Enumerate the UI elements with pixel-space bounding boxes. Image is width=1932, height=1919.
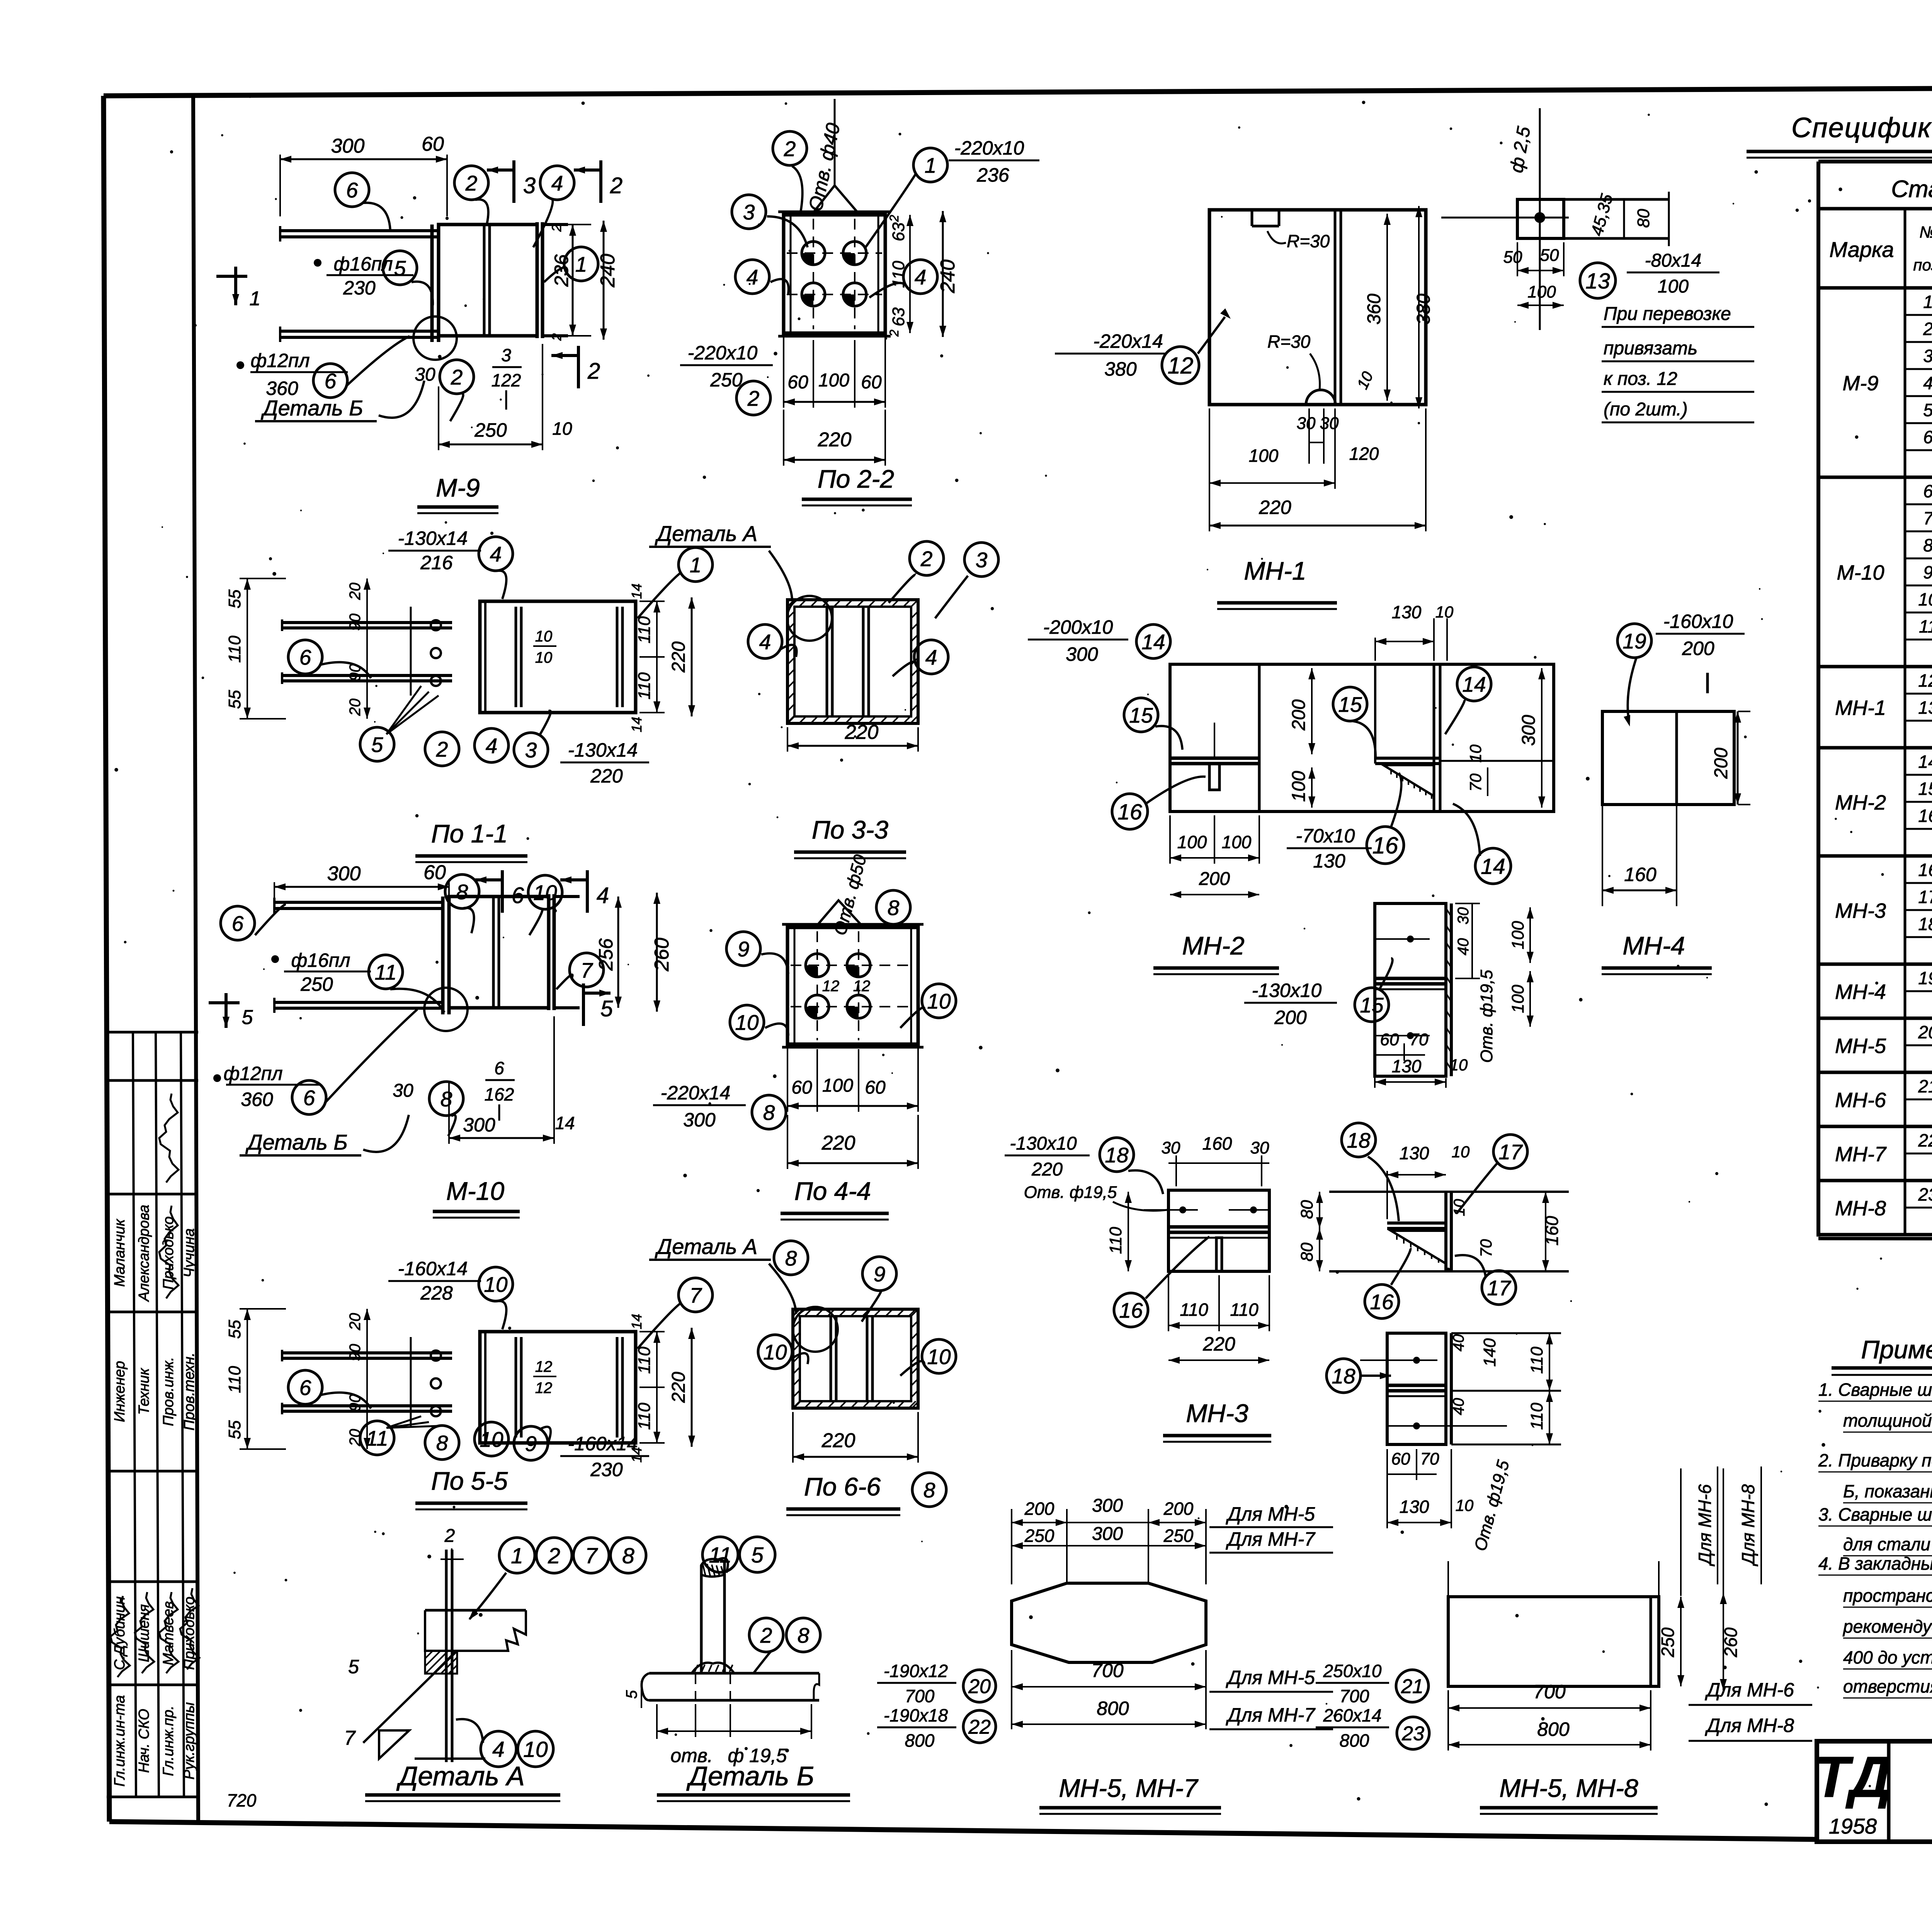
svg-text:привязать: привязать (1604, 338, 1697, 359)
svg-text:70: 70 (1466, 773, 1485, 791)
svg-text:Рук.группы: Рук.группы (181, 1702, 197, 1779)
svg-text:Чучина: Чучина (181, 1228, 197, 1278)
svg-text:720: 720 (227, 1790, 257, 1810)
svg-text:18: 18 (1105, 1143, 1129, 1167)
svg-text:8: 8 (1923, 535, 1932, 555)
svg-text:1. Сварные швы, неоговоренн: 1. Сварные швы, неоговоренные особо, при… (1818, 1380, 1932, 1400)
svg-text:МН-2: МН-2 (1835, 791, 1886, 814)
svg-text:15: 15 (1918, 779, 1932, 799)
svg-text:5: 5 (371, 733, 383, 757)
svg-text:700: 700 (1533, 1681, 1566, 1703)
svg-text:8: 8 (436, 1431, 448, 1455)
svg-text:Деталь Б: Деталь Б (260, 396, 363, 420)
svg-text:200: 200 (1711, 748, 1731, 779)
svg-text:20: 20 (1918, 1022, 1932, 1042)
svg-text:М-10: М-10 (446, 1177, 505, 1205)
svg-text:10: 10 (927, 989, 951, 1013)
svg-text:55: 55 (225, 1320, 244, 1339)
svg-text:5: 5 (348, 1656, 359, 1677)
svg-text:12: 12 (535, 1358, 553, 1375)
svg-text:4: 4 (551, 171, 563, 195)
svg-text:100: 100 (822, 1075, 853, 1096)
svg-text:228: 228 (420, 1282, 453, 1304)
svg-text:2: 2 (444, 1526, 455, 1546)
svg-text:800: 800 (905, 1730, 935, 1751)
svg-text:МН-3: МН-3 (1835, 899, 1886, 922)
svg-text:10: 10 (1450, 1056, 1468, 1074)
svg-text:ф12пл: ф12пл (223, 1063, 282, 1084)
svg-text:100: 100 (1289, 771, 1309, 802)
svg-text:10: 10 (1918, 589, 1932, 609)
svg-text:5: 5 (1923, 400, 1932, 420)
svg-text:-190х12: -190х12 (884, 1661, 948, 1681)
svg-text:18: 18 (1347, 1128, 1371, 1152)
svg-text:60: 60 (865, 1077, 886, 1098)
svg-text:МН-1: МН-1 (1835, 696, 1886, 720)
svg-text:6: 6 (1923, 481, 1932, 501)
svg-text:55: 55 (225, 589, 244, 608)
svg-text:250: 250 (710, 369, 743, 391)
svg-text:6: 6 (346, 178, 358, 202)
svg-text:220: 220 (1202, 1333, 1235, 1355)
svg-text:16: 16 (1370, 1290, 1394, 1314)
svg-text:-220х14: -220х14 (1093, 330, 1163, 352)
svg-text:63: 63 (889, 222, 908, 241)
svg-text:300: 300 (327, 863, 361, 885)
svg-text:80: 80 (1634, 209, 1653, 228)
svg-text:По 3-3: По 3-3 (812, 815, 889, 844)
svg-text:14: 14 (1481, 854, 1505, 879)
svg-text:30: 30 (1297, 414, 1316, 433)
svg-text:160: 160 (1624, 864, 1656, 885)
svg-text:к поз. 12: к поз. 12 (1604, 369, 1677, 389)
svg-text:60: 60 (423, 861, 446, 884)
svg-text:70: 70 (1410, 1030, 1429, 1049)
svg-text:220: 220 (818, 429, 852, 451)
svg-text:толщиной 6 мм.: толщиной 6 мм. (1843, 1410, 1932, 1431)
svg-text:300: 300 (1066, 643, 1098, 665)
svg-text:3: 3 (525, 738, 537, 762)
svg-text:230: 230 (343, 277, 376, 299)
svg-text:230: 230 (590, 1459, 623, 1480)
svg-text:2: 2 (760, 1623, 772, 1647)
svg-text:11: 11 (1919, 616, 1932, 636)
svg-text:1: 1 (511, 1544, 523, 1569)
svg-text:Нач. СКО: Нач. СКО (136, 1709, 152, 1773)
svg-text:Для МН-8: Для МН-8 (1705, 1715, 1794, 1736)
svg-text:250: 250 (474, 419, 507, 441)
svg-text:8: 8 (622, 1544, 634, 1569)
svg-text:14: 14 (1462, 672, 1486, 696)
svg-text:130: 130 (1313, 850, 1345, 872)
svg-text:10: 10 (927, 1345, 951, 1369)
svg-text:50: 50 (1540, 246, 1559, 265)
svg-text:17: 17 (1918, 887, 1932, 907)
svg-text:ф16пл: ф16пл (333, 253, 393, 275)
svg-text:8: 8 (440, 1087, 452, 1111)
svg-text:Для МН-8: Для МН-8 (1738, 1484, 1758, 1567)
svg-text:-160х14: -160х14 (568, 1433, 638, 1455)
svg-text:60: 60 (1380, 1030, 1399, 1049)
svg-text:14: 14 (1918, 752, 1932, 772)
svg-text:19: 19 (1622, 629, 1646, 653)
svg-text:110: 110 (1230, 1300, 1259, 1320)
svg-text:20: 20 (968, 1676, 991, 1698)
svg-text:12: 12 (535, 1380, 553, 1397)
svg-text:60: 60 (1391, 1449, 1410, 1468)
svg-text:-190х18: -190х18 (884, 1705, 948, 1725)
svg-text:14: 14 (629, 584, 645, 599)
svg-text:17: 17 (1498, 1140, 1523, 1164)
svg-text:110: 110 (225, 635, 244, 663)
svg-text:6: 6 (303, 1086, 315, 1110)
svg-text:3. Сварные швы выполнять: 3. Сварные швы выполнять электродами тип… (1818, 1504, 1932, 1524)
svg-text:ф16пл: ф16пл (291, 949, 350, 971)
svg-text:700: 700 (1091, 1660, 1124, 1681)
svg-text:300: 300 (331, 135, 365, 157)
svg-text:60: 60 (791, 1077, 812, 1098)
svg-text:-220х10: -220х10 (688, 342, 758, 364)
svg-text:8: 8 (798, 1623, 810, 1647)
svg-text:Отв. ф19,5: Отв. ф19,5 (1477, 970, 1496, 1063)
svg-text:2: 2 (887, 330, 901, 337)
svg-text:200: 200 (1289, 699, 1309, 731)
svg-text:Пров.техн.: Пров.техн. (181, 1352, 197, 1431)
svg-text:14: 14 (629, 717, 645, 732)
svg-text:90: 90 (347, 1344, 364, 1361)
svg-text:5: 5 (623, 1690, 640, 1699)
svg-text:110: 110 (635, 672, 654, 699)
svg-text:-70х10: -70х10 (1296, 825, 1355, 847)
svg-text:-160х10: -160х10 (1663, 611, 1733, 632)
svg-text:2: 2 (610, 173, 622, 198)
svg-text:30: 30 (1320, 414, 1339, 433)
svg-text:7: 7 (581, 958, 594, 982)
svg-text:200: 200 (1682, 638, 1714, 659)
svg-text:12: 12 (1918, 670, 1932, 691)
svg-text:20: 20 (347, 583, 364, 601)
svg-text:260х14: 260х14 (1323, 1705, 1382, 1725)
svg-text:При перевозке: При перевозке (1604, 304, 1731, 324)
svg-text:40: 40 (1450, 1334, 1467, 1352)
svg-text:Гл.инж.ин-та: Гл.инж.ин-та (112, 1695, 128, 1787)
svg-text:13: 13 (1585, 269, 1610, 294)
svg-text:8: 8 (888, 896, 900, 920)
svg-text:162: 162 (485, 1084, 514, 1104)
svg-text:236: 236 (976, 164, 1009, 186)
svg-text:5: 5 (600, 996, 613, 1021)
svg-text:800: 800 (1537, 1718, 1570, 1740)
svg-text:216: 216 (420, 552, 453, 573)
svg-text:220: 220 (1259, 497, 1291, 518)
svg-text:14: 14 (555, 1113, 575, 1133)
svg-text:55: 55 (225, 1420, 244, 1439)
svg-text:R=30: R=30 (1287, 231, 1330, 251)
svg-text:300: 300 (1092, 1524, 1123, 1544)
svg-text:16: 16 (1372, 833, 1398, 859)
svg-text:Б, показанной на листе: Б, показанной на листе 26. (1843, 1481, 1932, 1501)
svg-text:8: 8 (763, 1101, 775, 1125)
svg-text:30: 30 (1250, 1138, 1269, 1157)
svg-text:250х10: 250х10 (1323, 1661, 1382, 1681)
svg-text:122: 122 (492, 370, 521, 390)
svg-text:1: 1 (1923, 292, 1932, 312)
svg-text:-220х10: -220х10 (954, 137, 1024, 159)
svg-text:12: 12 (853, 978, 871, 995)
svg-text:R=30: R=30 (1267, 332, 1311, 352)
svg-text:15: 15 (1360, 993, 1384, 1017)
svg-text:110: 110 (635, 616, 654, 643)
svg-text:7: 7 (690, 1283, 702, 1307)
svg-text:7: 7 (344, 1727, 356, 1749)
svg-text:250: 250 (1024, 1526, 1054, 1546)
svg-text:130: 130 (1400, 1143, 1429, 1163)
svg-text:130: 130 (1400, 1497, 1429, 1517)
svg-text:10: 10 (533, 881, 557, 905)
svg-text:19: 19 (1918, 968, 1932, 988)
svg-text:300: 300 (1092, 1495, 1123, 1516)
svg-text:По 6-6: По 6-6 (804, 1472, 881, 1501)
svg-text:8: 8 (923, 1478, 935, 1502)
svg-text:2: 2 (887, 215, 901, 222)
svg-text:360: 360 (241, 1089, 273, 1110)
svg-text:7: 7 (1923, 508, 1932, 528)
svg-text:-130х10: -130х10 (1010, 1133, 1077, 1154)
svg-text:110: 110 (889, 260, 908, 288)
svg-text:110: 110 (635, 1346, 654, 1374)
svg-text:120: 120 (1349, 444, 1379, 464)
svg-text:220: 220 (668, 1372, 689, 1403)
svg-text:Инженер: Инженер (112, 1361, 128, 1422)
svg-text:50: 50 (1503, 248, 1522, 267)
svg-text:5: 5 (751, 1543, 764, 1568)
svg-text:6: 6 (299, 1376, 311, 1400)
svg-text:1958: 1958 (1829, 1814, 1877, 1838)
svg-text:110: 110 (635, 1402, 654, 1430)
svg-text:800: 800 (1340, 1730, 1369, 1751)
svg-text:90: 90 (347, 614, 364, 631)
svg-text:15: 15 (1338, 692, 1362, 716)
svg-text:МН-4: МН-4 (1622, 931, 1685, 960)
svg-text:4: 4 (486, 734, 498, 758)
svg-text:Отв. ф19,5: Отв. ф19,5 (1024, 1183, 1117, 1202)
svg-text:2: 2 (587, 359, 600, 384)
svg-text:рекомендуется тщательно з: рекомендуется тщательно заполнить бетоно… (1842, 1616, 1932, 1637)
svg-text:100: 100 (1509, 985, 1527, 1013)
svg-text:130: 130 (1392, 1056, 1422, 1076)
svg-text:4: 4 (490, 542, 502, 566)
svg-text:30: 30 (1455, 907, 1472, 925)
svg-text:По 4-4: По 4-4 (794, 1177, 871, 1205)
svg-text:2: 2 (465, 171, 478, 195)
svg-text:4: 4 (597, 883, 609, 908)
svg-text:По 1-1: По 1-1 (431, 819, 508, 848)
svg-text:10: 10 (523, 1737, 548, 1762)
svg-text:110: 110 (1180, 1300, 1208, 1320)
svg-text:220: 220 (845, 721, 879, 743)
svg-text:80: 80 (1298, 1242, 1316, 1261)
svg-text:5: 5 (242, 1006, 253, 1029)
svg-text:30: 30 (415, 364, 435, 385)
svg-text:60: 60 (861, 372, 882, 393)
svg-text:12: 12 (822, 978, 840, 995)
svg-text:МН-8: МН-8 (1835, 1197, 1886, 1220)
svg-text:16: 16 (1117, 800, 1142, 825)
svg-text:110: 110 (1527, 1346, 1546, 1374)
svg-text:30: 30 (393, 1080, 413, 1101)
svg-text:12: 12 (1168, 353, 1194, 379)
svg-text:40: 40 (1450, 1398, 1467, 1415)
svg-text:МН-3: МН-3 (1186, 1399, 1248, 1427)
svg-text:100: 100 (1527, 282, 1556, 301)
svg-text:10: 10 (480, 1427, 503, 1451)
svg-text:9: 9 (1923, 562, 1932, 582)
svg-text:отверстия для пропуска: отверстия для пропуска пучковой арматуры… (1843, 1676, 1932, 1696)
svg-text:20: 20 (347, 1313, 364, 1331)
svg-text:1: 1 (250, 288, 261, 310)
svg-text:2: 2 (920, 547, 933, 571)
svg-text:Для МН-6: Для МН-6 (1695, 1484, 1715, 1567)
svg-text:-200х10: -200х10 (1043, 616, 1113, 638)
svg-text:4: 4 (925, 645, 937, 669)
svg-text:2: 2 (548, 1544, 560, 1569)
svg-text:Деталь А: Деталь А (396, 1761, 525, 1791)
svg-text:4: 4 (1923, 373, 1932, 393)
svg-text:3: 3 (743, 200, 755, 224)
svg-text:15: 15 (1129, 703, 1153, 727)
svg-text:2: 2 (1923, 319, 1932, 339)
svg-text:130: 130 (1392, 602, 1422, 622)
svg-text:-80х14: -80х14 (1645, 250, 1702, 271)
svg-text:Спецификация стали на одн: Спецификация стали на одну штуку каждой … (1791, 112, 1932, 143)
svg-text:2: 2 (549, 333, 564, 341)
svg-text:9: 9 (738, 937, 750, 961)
svg-text:380: 380 (1413, 294, 1434, 325)
svg-text:По 5-5: По 5-5 (431, 1466, 508, 1495)
svg-text:14: 14 (1141, 630, 1165, 654)
svg-text:380: 380 (1104, 358, 1137, 380)
svg-text:220: 220 (1031, 1159, 1063, 1180)
svg-text:МН-2: МН-2 (1182, 931, 1244, 960)
svg-text:200: 200 (1163, 1499, 1194, 1519)
svg-text:3: 3 (976, 548, 988, 572)
svg-text:18: 18 (1332, 1364, 1355, 1388)
svg-text:-130х14: -130х14 (398, 527, 468, 549)
svg-text:100: 100 (1658, 276, 1689, 297)
svg-text:Деталь А: Деталь А (655, 521, 757, 546)
svg-text:1: 1 (925, 153, 937, 177)
svg-text:По 2-2: По 2-2 (818, 464, 894, 493)
svg-text:МН-5, МН-7: МН-5, МН-7 (1059, 1774, 1199, 1802)
svg-text:Для МН-6: Для МН-6 (1705, 1679, 1794, 1701)
svg-text:1: 1 (690, 553, 702, 577)
svg-text:2. Приварку позиции 6 про: 2. Приварку позиции 6 производить соглас… (1818, 1450, 1932, 1470)
svg-text:22: 22 (968, 1716, 991, 1739)
svg-text:6: 6 (494, 1058, 504, 1078)
svg-text:№: № (1919, 223, 1932, 241)
svg-text:6: 6 (299, 645, 311, 669)
svg-text:70: 70 (1477, 1239, 1495, 1257)
svg-text:10: 10 (1456, 1496, 1474, 1514)
svg-text:55: 55 (225, 690, 244, 709)
svg-text:60: 60 (422, 133, 444, 155)
svg-text:Примечания.: Примечания. (1861, 1335, 1932, 1364)
svg-text:300: 300 (1519, 715, 1539, 746)
svg-text:4: 4 (747, 265, 759, 289)
svg-text:160: 160 (1542, 1216, 1562, 1245)
svg-text:2: 2 (549, 224, 564, 232)
svg-text:Деталь Б: Деталь Б (686, 1761, 814, 1791)
svg-text:3: 3 (523, 173, 536, 198)
svg-text:МН-1: МН-1 (1244, 556, 1306, 585)
svg-text:250: 250 (1658, 1627, 1678, 1657)
svg-text:17: 17 (1487, 1276, 1512, 1300)
svg-text:8: 8 (456, 880, 468, 904)
svg-text:13: 13 (1918, 698, 1932, 718)
svg-text:220: 220 (668, 641, 689, 673)
svg-text:100: 100 (1249, 446, 1279, 466)
svg-text:9: 9 (525, 1432, 537, 1456)
svg-text:220: 220 (590, 765, 623, 787)
svg-text:10: 10 (1466, 744, 1485, 762)
svg-text:110: 110 (1527, 1402, 1546, 1430)
svg-text:4: 4 (492, 1737, 505, 1762)
svg-text:Деталь Б: Деталь Б (245, 1130, 348, 1154)
svg-text:10: 10 (735, 1011, 759, 1034)
svg-text:70: 70 (1420, 1449, 1439, 1468)
svg-text:63: 63 (889, 307, 908, 326)
svg-text:250: 250 (1163, 1526, 1194, 1546)
svg-text:6: 6 (325, 369, 337, 393)
svg-text:10: 10 (535, 628, 553, 645)
svg-text:200: 200 (1199, 869, 1230, 889)
svg-text:256: 256 (595, 938, 617, 971)
svg-text:20: 20 (347, 699, 364, 716)
svg-text:Для МН-5: Для МН-5 (1226, 1667, 1315, 1688)
svg-text:100: 100 (818, 370, 849, 391)
svg-text:М-9: М-9 (436, 473, 480, 502)
svg-text:для стали марки Ст.3 и Э5: для стали марки Ст.3 и Э50 А для стали м… (1843, 1534, 1932, 1554)
svg-text:МН-7: МН-7 (1835, 1143, 1887, 1166)
svg-text:Марка: Марка (1829, 237, 1894, 262)
svg-text:200: 200 (1024, 1499, 1054, 1519)
svg-text:2: 2 (784, 137, 796, 161)
svg-text:10: 10 (484, 1273, 508, 1296)
svg-text:11: 11 (366, 1426, 388, 1450)
svg-text:ТД: ТД (1814, 1744, 1891, 1809)
svg-text:МН-4: МН-4 (1835, 980, 1886, 1004)
svg-text:1: 1 (575, 252, 587, 276)
svg-text:14: 14 (629, 1314, 645, 1329)
svg-text:220: 220 (821, 1132, 855, 1154)
svg-text:700: 700 (905, 1686, 935, 1706)
svg-text:100: 100 (1177, 832, 1207, 852)
svg-text:6: 6 (232, 912, 244, 936)
svg-text:2: 2 (747, 386, 760, 410)
svg-text:300: 300 (463, 1114, 495, 1136)
svg-text:10: 10 (763, 1340, 787, 1364)
svg-text:Для МН-7: Для МН-7 (1226, 1704, 1316, 1726)
svg-text:Для МН-5: Для МН-5 (1226, 1503, 1315, 1525)
svg-text:Александрова: Александрова (136, 1205, 152, 1302)
svg-text:-130х14: -130х14 (568, 739, 638, 761)
svg-text:100: 100 (1509, 921, 1527, 949)
svg-text:22: 22 (1918, 1130, 1932, 1150)
svg-text:2: 2 (436, 737, 448, 761)
svg-text:700: 700 (1340, 1686, 1369, 1706)
svg-text:пространство, образованное: пространство, образованное позициями 1,2… (1843, 1586, 1932, 1606)
svg-text:160: 160 (1202, 1133, 1232, 1153)
